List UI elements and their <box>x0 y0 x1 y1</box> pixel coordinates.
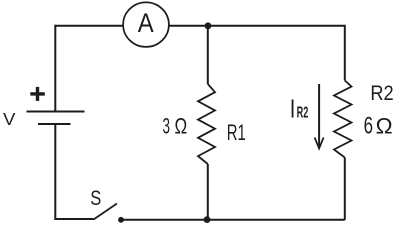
svg-text:R1: R1 <box>227 120 246 145</box>
svg-text:3: 3 <box>163 113 171 138</box>
battery V negative plate <box>38 123 71 125</box>
node junction dot top <box>205 22 212 29</box>
wire R1 branch lower <box>207 164 209 220</box>
svg-text:I: I <box>291 93 295 123</box>
svg-text:Ω: Ω <box>175 113 188 138</box>
wire right vertical lower <box>344 158 346 220</box>
wire top left segment <box>55 25 123 27</box>
wire right vertical upper <box>344 25 346 81</box>
node junction dot bottom <box>204 216 211 223</box>
battery plus sign <box>30 87 45 101</box>
wire bottom from switch to right corner <box>121 219 345 221</box>
wire left vertical lower and bottom to switch <box>55 124 93 219</box>
wire top right segment <box>169 25 345 27</box>
svg-text:Ω: Ω <box>376 114 393 139</box>
battery V positive plate <box>27 111 85 113</box>
resistor R2 zigzag <box>334 81 352 158</box>
current arrow IR2 head <box>315 138 324 149</box>
svg-text:V: V <box>3 109 16 129</box>
svg-text:6: 6 <box>364 113 373 140</box>
current arrow IR2 line <box>318 84 320 148</box>
ammeter A circle <box>123 2 169 47</box>
switch S blade <box>94 204 118 220</box>
switch S contact dot <box>118 217 124 223</box>
svg-text:S: S <box>90 186 101 210</box>
svg-text:R2: R2 <box>297 104 309 121</box>
svg-text:R2: R2 <box>370 81 393 105</box>
wire left vertical upper <box>54 25 56 112</box>
resistor R1 zigzag <box>198 84 215 164</box>
svg-text:A: A <box>138 8 154 38</box>
wire R1 branch upper <box>207 26 209 84</box>
